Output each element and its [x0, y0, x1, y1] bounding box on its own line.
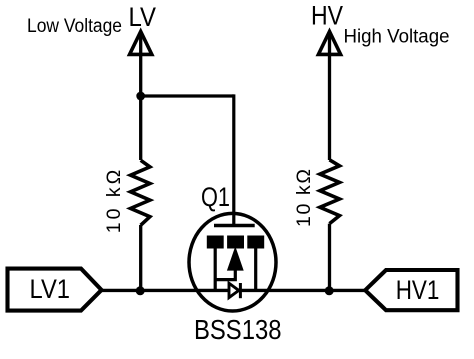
svg-text:Low Voltage: Low Voltage: [27, 15, 122, 37]
resistor R-LV 10 kOhm zigzag: [131, 160, 150, 225]
gate bar: [214, 224, 255, 227]
source pin line: [214, 248, 217, 291]
svg-text:Q1: Q1: [201, 182, 230, 212]
channel pad source: [207, 236, 224, 249]
connector HV1 tag: [365, 270, 457, 310]
node junction LV-gate: [136, 92, 145, 101]
svg-text:High Voltage: High Voltage: [344, 26, 450, 48]
LV supply arrow: [130, 32, 152, 55]
connector LV1 tag: [8, 269, 102, 311]
channel pad body: [227, 236, 244, 249]
svg-text:LV1: LV1: [30, 273, 71, 304]
drain pin line: [254, 248, 257, 291]
substrate arrow (filled): [228, 248, 243, 270]
wire HV vertical (arrow to resistor top): [328, 33, 331, 160]
body diode triangle: [229, 283, 239, 297]
wire gate branch horizontal: [141, 94, 234, 97]
node junction LV rail bottom: [136, 286, 145, 295]
svg-text:HV1: HV1: [396, 275, 440, 305]
node junction HV rail bottom: [325, 286, 334, 295]
svg-text:BSS138: BSS138: [194, 314, 282, 345]
wire main horizontal LV1 to HV1: [101, 289, 366, 292]
svg-text:10 kΩ: 10 kΩ: [103, 170, 125, 234]
substrate stem wire: [215, 269, 235, 280]
resistor R-HV 10 kOhm zigzag: [320, 160, 340, 224]
HV supply arrow: [318, 32, 340, 55]
wire resistor bottom lead left: [139, 225, 142, 291]
body diode cathode bar: [239, 283, 242, 298]
wire gate branch vertical: [232, 94, 235, 225]
transistor Q1 body circle: [189, 213, 276, 311]
svg-text:HV: HV: [311, 1, 343, 31]
svg-text:10 kΩ: 10 kΩ: [293, 169, 315, 227]
channel pad drain: [247, 236, 264, 249]
wire resistor bottom lead right: [328, 224, 331, 291]
wire LV vertical (arrow to resistor top): [139, 33, 142, 160]
svg-text:LV: LV: [129, 2, 157, 32]
